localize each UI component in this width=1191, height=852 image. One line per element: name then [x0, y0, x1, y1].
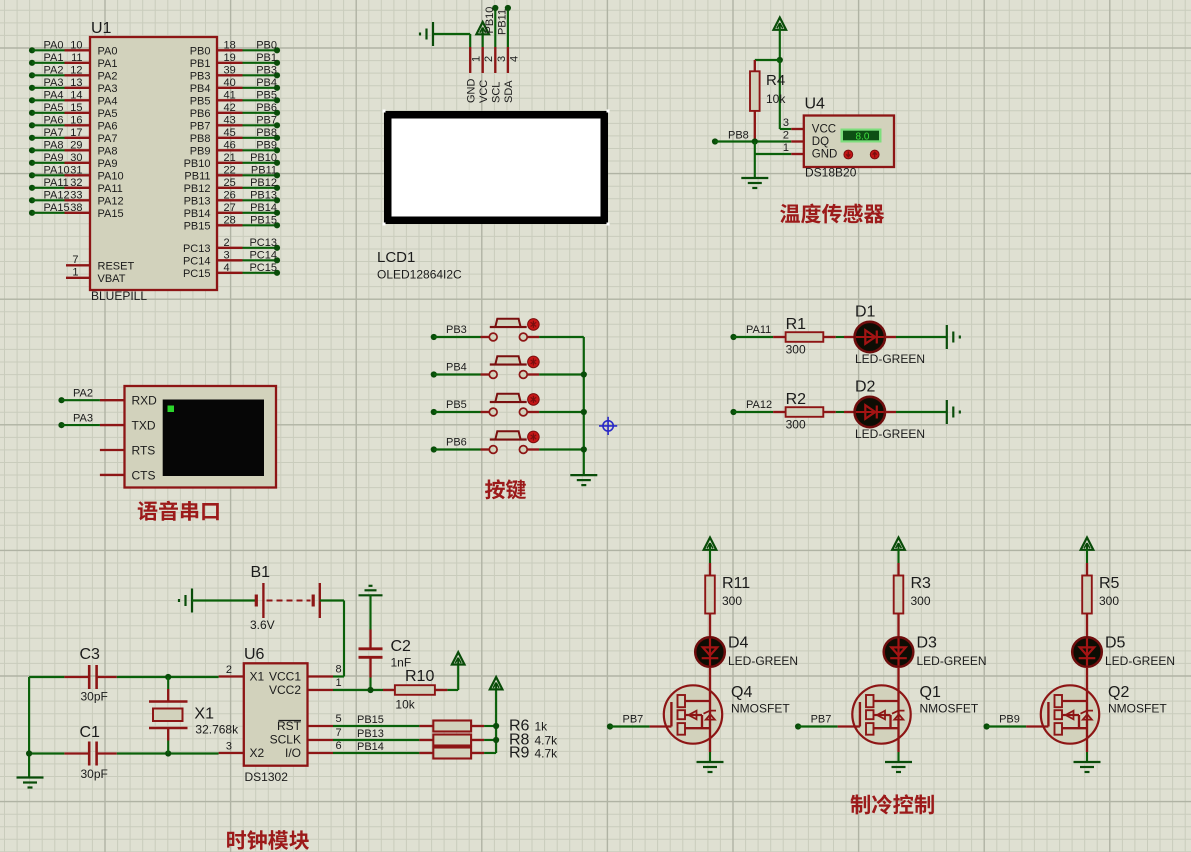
wire PB4 to button [434, 373, 490, 375]
wire D5 to Q2 drain [1086, 667, 1088, 685]
svg-text:PB13: PB13 [184, 196, 211, 208]
sensor U4 DS18B20 body [804, 116, 894, 168]
wire+pin 27 PB14 (U1 right) [184, 202, 281, 220]
svg-text:10k: 10k [395, 698, 415, 712]
svg-text:PB9: PB9 [999, 714, 1020, 726]
label 300 (R3) [911, 594, 931, 608]
svg-text:PC15: PC15 [249, 262, 277, 274]
svg-text:PA11: PA11 [44, 177, 69, 189]
label R4 [766, 72, 785, 89]
svg-text:1k: 1k [535, 720, 549, 734]
button PB4 actuator [528, 356, 540, 368]
capacitor C2 [359, 630, 383, 678]
svg-text:1: 1 [336, 677, 342, 689]
caption 制冷控制 [850, 794, 933, 814]
svg-text:PB13: PB13 [250, 189, 277, 201]
resistor R4 [750, 60, 760, 142]
svg-text:41: 41 [224, 89, 236, 101]
svg-text:300: 300 [911, 594, 931, 608]
LED D2 [855, 397, 885, 427]
wire+pin 43 PB7 (U1 right) [190, 114, 280, 132]
transistor Q2 NMOSFET [1041, 685, 1099, 752]
label R6 [509, 718, 530, 735]
svg-text:D1: D1 [855, 304, 876, 321]
svg-text:VCC: VCC [478, 80, 490, 103]
serial pin RXD [100, 394, 157, 408]
svg-text:U1: U1 [91, 20, 112, 37]
svg-text:PB14: PB14 [357, 741, 384, 753]
svg-text:PB15: PB15 [357, 714, 384, 726]
junction X2 bottom [165, 750, 171, 756]
svg-text:7: 7 [336, 727, 342, 739]
svg-text:PB13: PB13 [357, 728, 384, 740]
wire power to R3 [897, 549, 899, 564]
terminal PA11 [730, 324, 771, 340]
pin 7 (U6 SCLK) [308, 727, 342, 740]
svg-text:GND: GND [812, 149, 838, 161]
svg-text:PB10: PB10 [184, 158, 211, 170]
LED D4 [695, 637, 725, 667]
wire PB7 to gate [798, 725, 860, 727]
svg-text:LED-GREEN: LED-GREEN [728, 654, 798, 668]
label R9 [509, 745, 530, 762]
svg-text:31: 31 [70, 164, 82, 176]
LCD1 pin 3 SCL [491, 47, 508, 103]
junction PB5 bus [581, 409, 587, 415]
terminal PB4 [431, 362, 467, 378]
terminal PB8 [712, 130, 749, 145]
svg-text:3: 3 [226, 741, 232, 753]
wire to ground (U4) [754, 142, 756, 179]
caption 按键 [485, 479, 526, 499]
svg-text:PB10: PB10 [484, 7, 496, 34]
transistor Q1 NMOSFET [852, 685, 910, 752]
svg-text:300: 300 [786, 418, 806, 432]
svg-text:PB7: PB7 [811, 714, 832, 726]
svg-text:PA12: PA12 [746, 399, 772, 411]
label 10k (R4) [766, 92, 786, 106]
svg-text:PB8: PB8 [190, 133, 211, 145]
svg-text:TXD: TXD [132, 419, 156, 433]
svg-text:PB0: PB0 [190, 46, 211, 58]
label DS18B20 [805, 166, 857, 180]
wire+pin 32 PA11 (U1 left) [29, 177, 123, 195]
svg-text:22: 22 [224, 164, 236, 176]
wire power to R11 [709, 549, 711, 564]
svg-text:PB15: PB15 [184, 221, 211, 233]
svg-text:PA15: PA15 [44, 202, 70, 214]
push button PB5 switch [489, 394, 527, 416]
svg-text:PB5: PB5 [446, 399, 467, 411]
caption 温度传感器 [780, 204, 884, 224]
svg-text:PB10: PB10 [250, 152, 277, 164]
wire+pin 14 PA4 (U1 left) [29, 89, 118, 107]
svg-text:PB6: PB6 [446, 437, 467, 449]
svg-text:PA12: PA12 [44, 189, 70, 201]
U6 inner pin names [250, 670, 302, 761]
svg-text:16: 16 [70, 114, 82, 126]
label OLED12864I2C [377, 268, 462, 282]
svg-text:300: 300 [1099, 594, 1119, 608]
label C2 [391, 638, 412, 655]
svg-text:Q2: Q2 [1108, 684, 1129, 701]
label 10k (R10) [395, 698, 415, 712]
svg-text:33: 33 [70, 189, 82, 201]
wire GND net from LCD1 pin1 [433, 34, 470, 47]
svg-text:PA9: PA9 [44, 152, 64, 164]
wire ground to B1 [192, 599, 256, 601]
pin 3 (U4 VCC) [783, 117, 804, 129]
svg-text:21: 21 [224, 152, 236, 164]
svg-text:LCD1: LCD1 [377, 249, 415, 266]
junction PB4 bus [581, 371, 587, 377]
label 1k (R6) [535, 720, 549, 734]
svg-text:17: 17 [70, 127, 82, 139]
label 300 (R5) [1099, 594, 1119, 608]
svg-text:PB14: PB14 [250, 202, 277, 214]
svg-text:R9: R9 [509, 745, 530, 762]
wire+pin 41 PB5 (U1 right) [190, 89, 280, 107]
wire D2 to ground [885, 411, 947, 413]
svg-text:PB15: PB15 [250, 214, 277, 226]
label B1 [251, 564, 271, 581]
svg-text:LED-GREEN: LED-GREEN [1105, 654, 1175, 668]
resistor R5 [1082, 563, 1092, 637]
svg-text:10: 10 [70, 39, 82, 51]
svg-text:PA0: PA0 [44, 39, 64, 51]
svg-text:DS1302: DS1302 [245, 770, 289, 784]
wire+pin 17 PA7 (U1 left) [29, 127, 118, 145]
LED D5 [1072, 637, 1102, 667]
resistor R3 [894, 563, 904, 637]
terminal PB7 (Q1) [795, 714, 831, 730]
push button PB3 switch [489, 319, 527, 341]
wire+pin 38 PA15 (U1 left) [29, 202, 124, 220]
svg-text:LED-GREEN: LED-GREEN [855, 427, 925, 441]
wire B1 to U6 VCC1 [320, 601, 344, 677]
svg-text:PA2: PA2 [44, 64, 64, 76]
junction R8 bus [493, 737, 499, 743]
wire PB9 to gate [987, 725, 1049, 727]
label U4 [805, 96, 826, 113]
ground (Q2) [1074, 762, 1101, 772]
wire U4 GND pin [755, 153, 792, 155]
junction C1 bus [26, 750, 32, 756]
power arrow (R10) [452, 652, 465, 664]
wire VCC to power [482, 33, 484, 47]
wire D4 to Q4 drain [709, 667, 711, 685]
svg-text:PA8: PA8 [44, 139, 64, 151]
svg-text:25: 25 [224, 177, 236, 189]
wire Q4 source to ground [709, 752, 711, 762]
svg-text:PC13: PC13 [183, 243, 211, 255]
label U6 [244, 646, 265, 663]
wire+pin 22 PB11 (U1 right) [184, 164, 280, 182]
display LCD1 OLED12864I2C body [383, 110, 610, 226]
svg-text:18: 18 [224, 39, 236, 51]
svg-text:3: 3 [783, 117, 789, 129]
svg-text:PA6: PA6 [98, 121, 118, 133]
label U1 [91, 20, 112, 37]
wire PB13 [333, 728, 419, 740]
label NMOSFET (Q1) [920, 702, 979, 716]
label NMOSFET (Q4) [731, 702, 790, 716]
svg-text:PA11: PA11 [746, 324, 771, 336]
svg-text:30: 30 [70, 152, 82, 164]
svg-text:PB1: PB1 [190, 58, 211, 70]
label R8 [509, 732, 530, 749]
svg-text:NMOSFET: NMOSFET [731, 702, 790, 716]
svg-text:32.768k: 32.768k [195, 723, 239, 737]
svg-text:C1: C1 [80, 724, 101, 741]
svg-text:D2: D2 [855, 379, 876, 396]
ground (D1) [947, 325, 960, 349]
LCD1 pin 2 VCC [478, 47, 495, 103]
wire SCL / node PB10 [484, 5, 499, 47]
resistor R1 [786, 332, 824, 342]
label X1 (crystal) [194, 706, 214, 723]
wire Q1 source to ground [897, 752, 899, 762]
caption 语音串口 [138, 501, 219, 521]
label C3 [80, 646, 101, 663]
U4 up button [870, 150, 879, 159]
svg-text:VCC2: VCC2 [269, 683, 301, 697]
svg-text:PB3: PB3 [256, 64, 277, 76]
wire+pin 15 PA5 (U1 left) [29, 102, 118, 120]
junction node at R4 top [777, 57, 783, 63]
power arrow (R11) [704, 538, 717, 550]
wire PB15 [333, 714, 419, 726]
svg-text:45: 45 [224, 127, 236, 139]
svg-text:14: 14 [70, 89, 82, 101]
wire PB6 to button [434, 448, 490, 450]
svg-text:PA4: PA4 [44, 89, 64, 101]
svg-text:D4: D4 [728, 635, 749, 652]
wire left bus (C3/C1/gnd) [29, 677, 64, 778]
label 300 (R2) [786, 418, 806, 432]
svg-text:U6: U6 [244, 646, 265, 663]
junction X1 top [165, 674, 171, 680]
svg-text:PB14: PB14 [184, 208, 211, 220]
svg-text:1: 1 [72, 266, 78, 278]
svg-text:30pF: 30pF [81, 767, 108, 781]
pin 3 (U6 X2) [219, 741, 244, 754]
svg-text:8.0: 8.0 [856, 132, 870, 143]
terminal PA2 [58, 387, 93, 403]
svg-text:PB7: PB7 [190, 121, 211, 133]
ground (left of LCD1) [420, 22, 433, 46]
label R11 [722, 575, 750, 592]
svg-text:1: 1 [783, 142, 789, 154]
svg-text:29: 29 [70, 139, 82, 151]
battery B1 [256, 583, 320, 618]
svg-text:1: 1 [471, 56, 483, 62]
wire button PB5 to bus [527, 411, 584, 413]
wire PA11 to R1 [734, 336, 786, 338]
svg-text:R10: R10 [405, 668, 434, 685]
junction node R4/PB8 [752, 138, 758, 144]
ground (Q4) [697, 762, 724, 772]
wire D3 to Q1 drain [897, 667, 899, 685]
resistor R6 [419, 721, 484, 732]
terminal PB7 (Q4) [607, 714, 643, 730]
svg-text:PB5: PB5 [256, 89, 277, 101]
svg-text:PA10: PA10 [98, 171, 124, 183]
LED D3 [884, 637, 914, 667]
svg-text:PA3: PA3 [98, 83, 118, 95]
label D1 [855, 304, 876, 321]
wire PA12 to R2 [734, 411, 786, 413]
svg-text:LED-GREEN: LED-GREEN [917, 654, 987, 668]
svg-text:8: 8 [336, 664, 342, 676]
svg-text:SCL: SCL [491, 82, 503, 103]
push button PB4 switch [489, 356, 527, 378]
svg-text:LED-GREEN: LED-GREEN [855, 352, 925, 366]
resistor R2 [786, 407, 824, 417]
svg-text:PB11: PB11 [251, 164, 277, 176]
resistor R11 [705, 563, 715, 637]
terminal PB6 [431, 437, 467, 453]
svg-text:PC14: PC14 [249, 249, 277, 261]
label D3 [917, 635, 938, 652]
junction PB6 bus [581, 446, 587, 452]
wire+pin 40 PB4 (U1 right) [190, 77, 280, 95]
label 300 (R1) [786, 343, 806, 357]
wire+pin 30 PA9 (U1 left) [29, 152, 118, 170]
wire+pin 21 PB10 (U1 right) [184, 152, 281, 170]
svg-text:RESET: RESET [98, 261, 135, 273]
svg-text:42: 42 [224, 102, 236, 114]
svg-text:PB6: PB6 [256, 102, 277, 114]
resistor R8 [419, 735, 484, 746]
svg-text:RXD: RXD [132, 394, 158, 408]
svg-text:R5: R5 [1099, 575, 1120, 592]
label 3.6V [250, 618, 275, 632]
svg-text:3: 3 [496, 56, 508, 62]
svg-text:NMOSFET: NMOSFET [1108, 702, 1167, 716]
svg-text:PB11: PB11 [184, 171, 210, 183]
svg-text:PB8: PB8 [728, 130, 749, 142]
label LED-GREEN (D3) [917, 654, 987, 668]
svg-text:40: 40 [224, 77, 236, 89]
label Q1 [920, 684, 941, 701]
chip U6 DS1302 body [244, 663, 308, 765]
wire D1 to ground [885, 336, 947, 338]
svg-text:5: 5 [336, 713, 342, 725]
button PB3 actuator [528, 319, 540, 331]
svg-text:NMOSFET: NMOSFET [920, 702, 979, 716]
power arrow (LCD1 VCC) [476, 22, 489, 34]
label LCD1 [377, 249, 415, 266]
svg-text:VCC: VCC [812, 124, 836, 136]
label R2 [786, 391, 807, 408]
svg-text:U4: U4 [805, 96, 826, 113]
svg-text:R2: R2 [786, 391, 807, 408]
label DS1302 [245, 770, 289, 784]
serial module body (voice) [125, 386, 277, 488]
svg-text:300: 300 [722, 594, 742, 608]
wire R2 to D2 [823, 411, 855, 413]
svg-text:PA8: PA8 [98, 146, 118, 158]
pin 2 (U6 X1) [219, 664, 244, 677]
serial pin CTS [100, 468, 156, 482]
svg-text:38: 38 [70, 202, 82, 214]
ground (U4) [741, 178, 768, 188]
ground (Q1) [885, 762, 912, 772]
blue origin marker [599, 417, 617, 435]
svg-text:PC14: PC14 [183, 256, 211, 268]
svg-text:28: 28 [224, 214, 236, 226]
svg-text:PB4: PB4 [190, 83, 211, 95]
svg-text:11: 11 [71, 52, 82, 64]
svg-text:PA7: PA7 [44, 127, 64, 139]
label R1 [786, 316, 807, 333]
svg-text:PB12: PB12 [250, 177, 277, 189]
svg-text:X2: X2 [250, 746, 265, 760]
power arrow (R5) [1081, 538, 1094, 550]
svg-text:PA12: PA12 [98, 196, 124, 208]
wire pull-up bus [484, 689, 496, 753]
wire+pin 12 PA2 (U1 left) [29, 64, 118, 82]
wire VCC2 to R10 [333, 689, 383, 691]
wire+pin 13 PA3 (U1 left) [29, 77, 118, 95]
svg-text:30pF: 30pF [81, 690, 108, 704]
svg-text:CTS: CTS [132, 468, 156, 482]
svg-text:26: 26 [224, 189, 236, 201]
svg-text:VCC1: VCC1 [269, 670, 301, 684]
ground (buttons) [570, 475, 597, 485]
wire C1 to U6 X2 [117, 752, 219, 754]
power arrow (R3) [892, 538, 905, 550]
svg-text:PA1: PA1 [98, 58, 118, 70]
pin 1 VBAT (U1) [66, 266, 126, 285]
svg-text:PB4: PB4 [446, 362, 467, 374]
svg-text:RTS: RTS [132, 444, 156, 458]
wire PB5 to button [434, 411, 490, 413]
wire+pin 29 PA8 (U1 left) [29, 139, 118, 157]
label LED-GREEN (D4) [728, 654, 798, 668]
wire junction down to U4 VCC [780, 60, 792, 129]
wire C3 to U6 X1 [117, 676, 219, 678]
svg-text:R3: R3 [911, 575, 932, 592]
svg-text:PA0: PA0 [98, 46, 118, 58]
button PB6 actuator [528, 431, 540, 443]
wire PB8 to U4 DQ [715, 140, 791, 142]
resistor R9 [419, 748, 484, 759]
pin 7 RESET (U1) [66, 254, 134, 273]
svg-text:2: 2 [224, 237, 230, 249]
label LED-GREEN (D1) [855, 352, 925, 366]
wire+pin 4 PC15 (U1 right) [183, 262, 280, 280]
wire button PB3 to bus [527, 336, 584, 338]
svg-text:X1: X1 [194, 706, 214, 723]
svg-text:D3: D3 [917, 635, 938, 652]
svg-text:PB5: PB5 [190, 96, 211, 108]
svg-text:2: 2 [783, 130, 789, 142]
svg-text:PA7: PA7 [98, 133, 118, 145]
label 30pF (C1) [81, 767, 108, 781]
terminal PB3 [431, 324, 467, 340]
svg-text:PA5: PA5 [98, 108, 118, 120]
svg-text:R11: R11 [722, 575, 750, 592]
label BLUEPILL [91, 289, 147, 303]
ground (D2) [947, 400, 960, 424]
svg-text:PA11: PA11 [98, 183, 123, 195]
U4 temperature display 8.0 [841, 129, 882, 143]
svg-text:R1: R1 [786, 316, 807, 333]
wire+pin 2 PC13 (U1 right) [183, 237, 280, 255]
wire+pin 42 PB6 (U1 right) [190, 102, 280, 120]
